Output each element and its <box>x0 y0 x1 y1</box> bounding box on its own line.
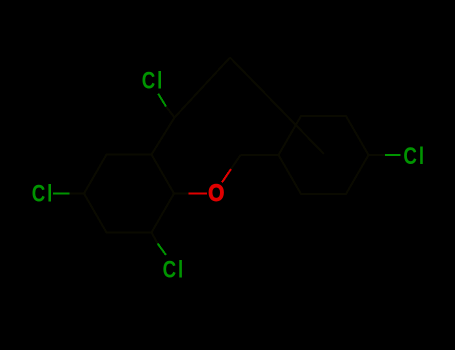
svg-text:O: O <box>208 180 224 207</box>
wire ring1 C1 to O ether, oxygen half <box>189 193 208 195</box>
wire CHa to Cl top, chlorine half <box>158 94 166 107</box>
svg-text:Cl: Cl <box>32 180 55 207</box>
wire apex down-right 45deg to ring2 centroid <box>230 58 324 155</box>
wire ring1 C2 to Cl bottom, chlorine half <box>158 244 166 256</box>
wire ring2 C4' to Cl right, carbon half <box>369 154 386 156</box>
svg-text:Cl: Cl <box>142 67 165 94</box>
wire ring1 C4 to Cl left, chlorine half <box>53 192 70 194</box>
wire ring2 C4' to Cl right, chlorine half <box>385 154 400 156</box>
wire CHa up-right 45deg to apex <box>175 58 231 118</box>
wire ring1 C4 to Cl left, carbon half <box>70 192 85 194</box>
svg-text:Cl: Cl <box>403 143 426 170</box>
benzene ring 1 (left: 2,4-dichloro-6-(chloromethyl)phenyl) <box>84 155 174 233</box>
wire O to CH2b benzyl, carbon half <box>231 155 241 169</box>
svg-text:Cl: Cl <box>163 256 186 283</box>
wire ring1 C2 to Cl bottom, carbon half <box>152 233 158 244</box>
wire ring1 C6 to CHa (chloromethine) <box>152 118 175 155</box>
wire O to CH2b benzyl, oxygen half <box>222 169 231 182</box>
wire ring1 C1 to O ether, carbon half <box>174 193 189 195</box>
wire CHa to Cl top, carbon half <box>166 107 175 118</box>
benzene ring 2 (right: 4-chlorophenyl) <box>279 116 369 194</box>
wire CH2b to ring2 ipso carbon <box>241 154 279 156</box>
